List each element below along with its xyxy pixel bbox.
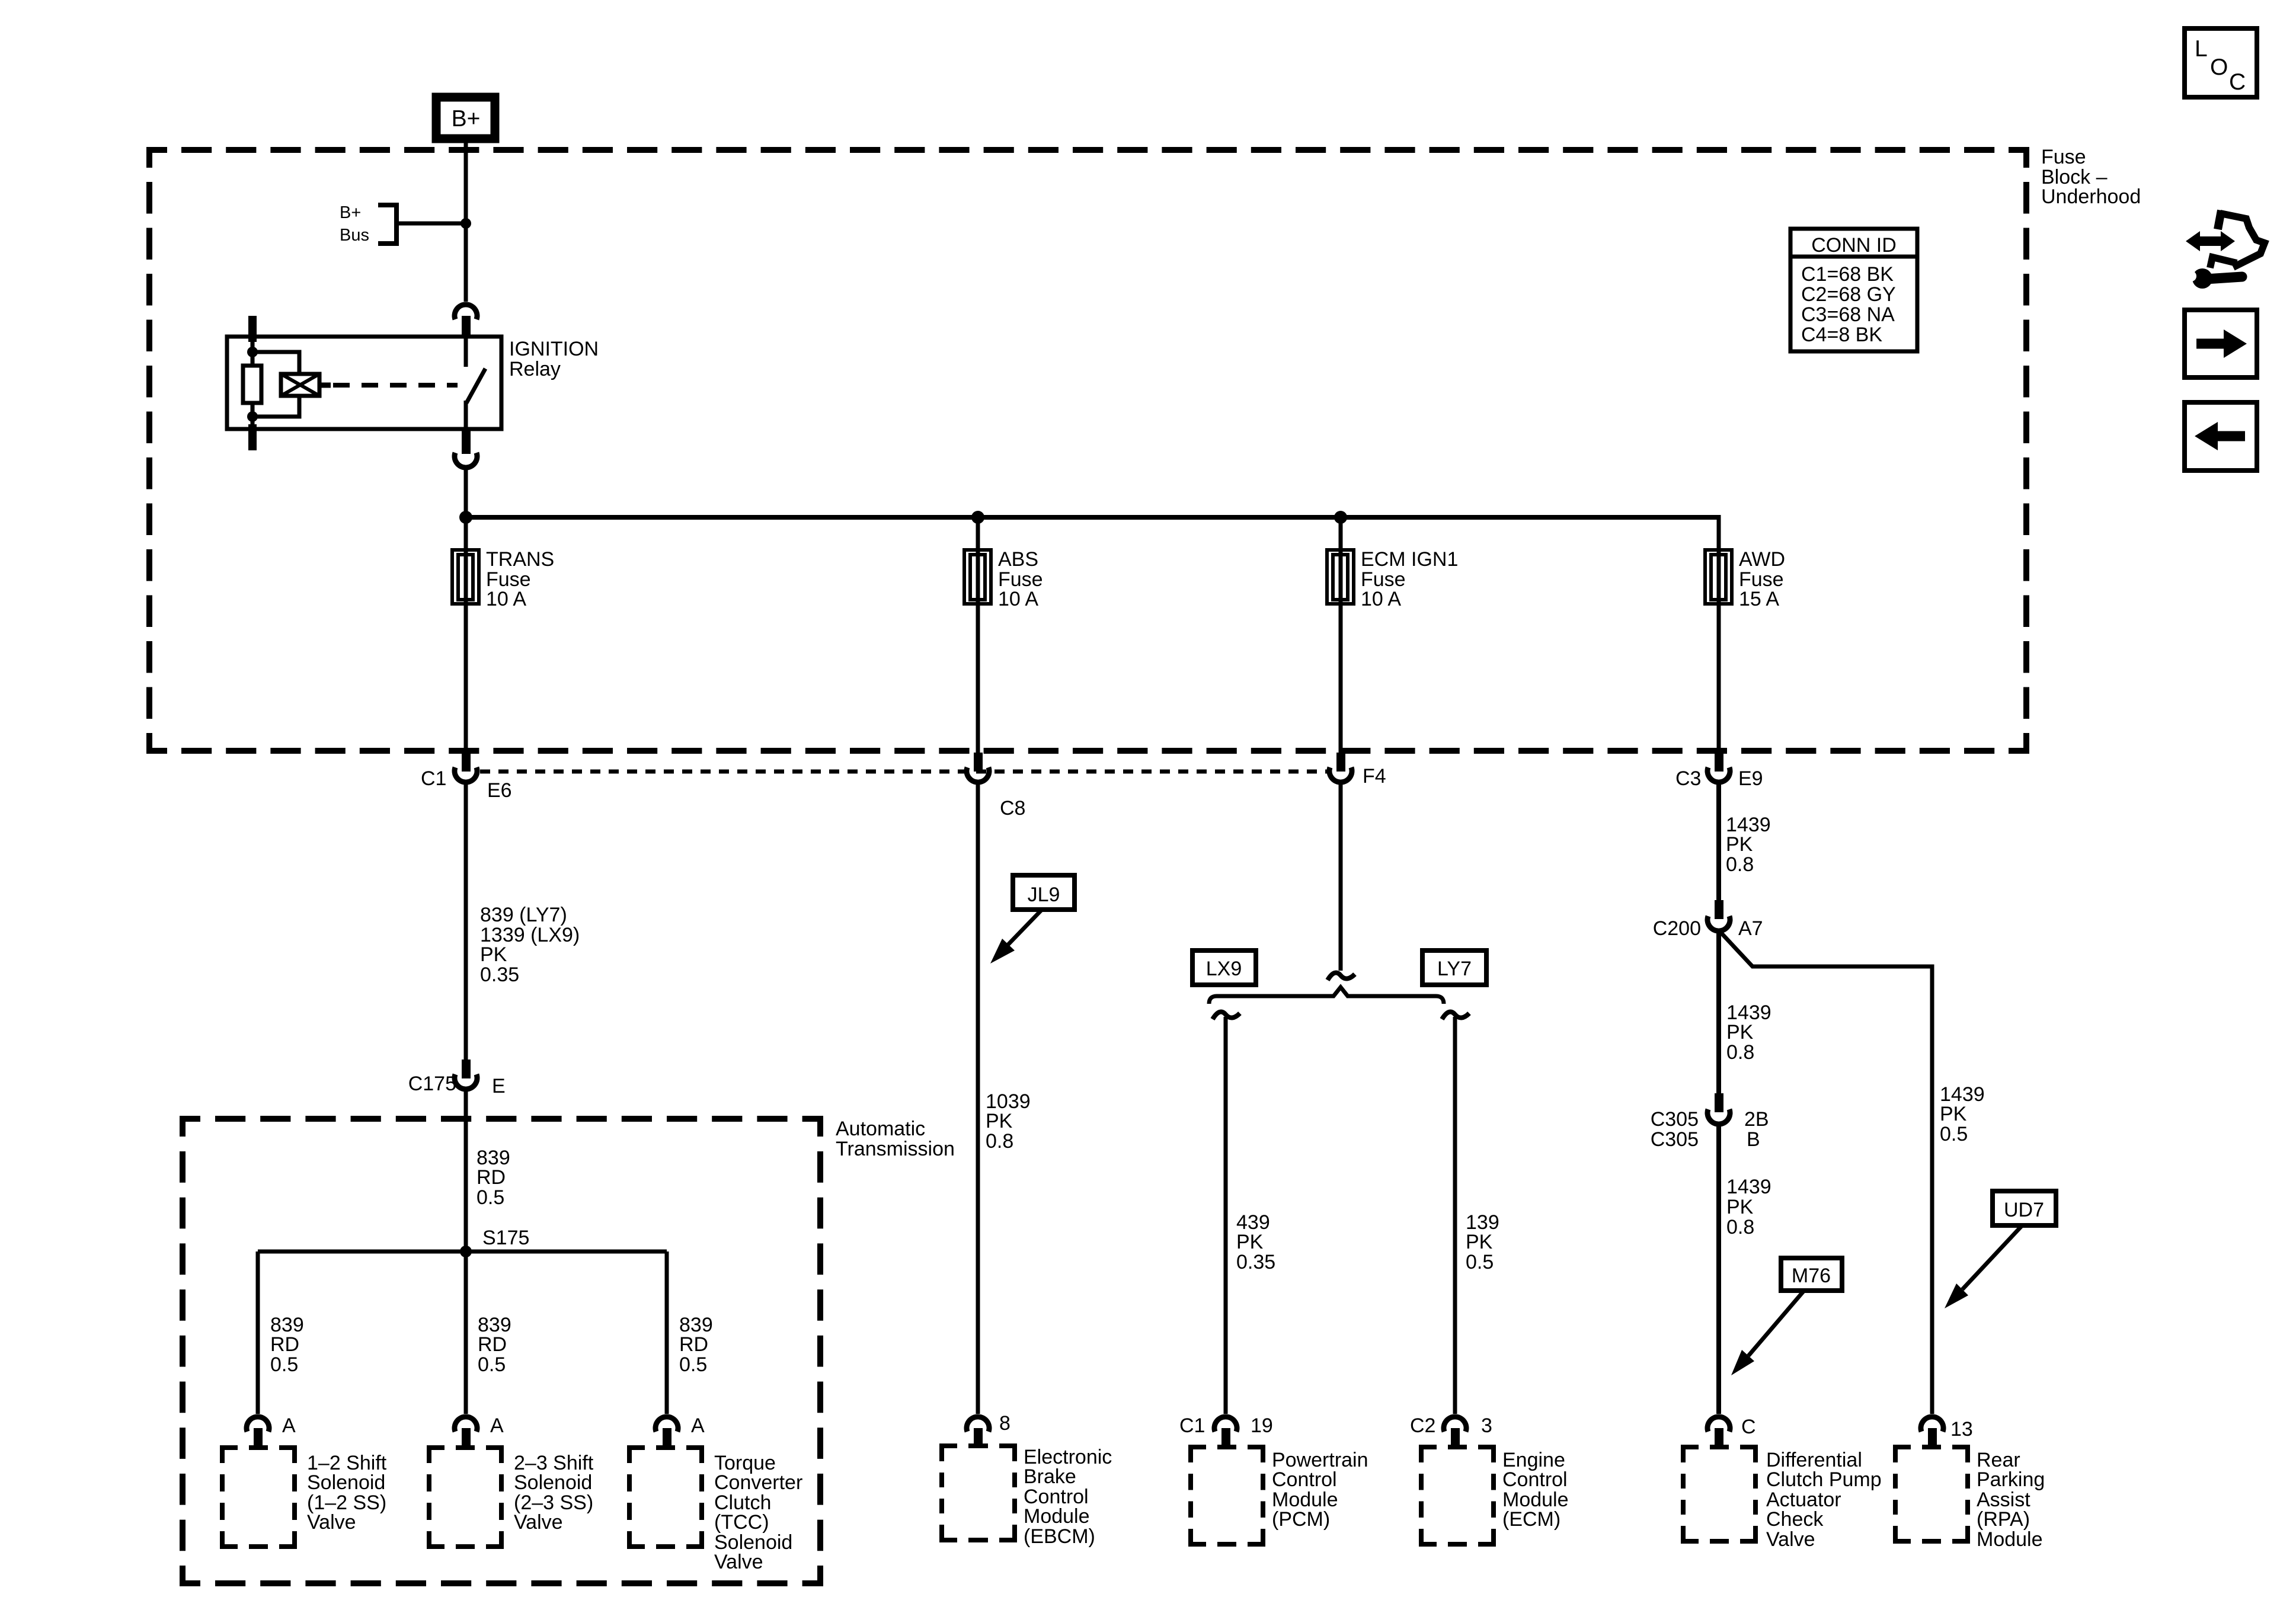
svg-text:0.5: 0.5 bbox=[1466, 1251, 1494, 1273]
M76 leader arrow bbox=[1748, 1291, 1804, 1356]
relay coil wire bbox=[251, 341, 255, 366]
svg-text:C8: C8 bbox=[1000, 797, 1025, 820]
automatic transmission dashed box bbox=[183, 1119, 820, 1583]
svg-text:(TCC): (TCC) bbox=[714, 1511, 769, 1534]
svg-text:E6: E6 bbox=[487, 779, 512, 802]
junction bus/ABS fuse bbox=[971, 511, 984, 524]
svg-text:C2=68 GY: C2=68 GY bbox=[1801, 283, 1896, 306]
svg-text:C305: C305 bbox=[1651, 1128, 1699, 1151]
svg-text:PK: PK bbox=[1726, 833, 1753, 856]
relay switch bbox=[464, 337, 468, 367]
icon back arrow box bbox=[2185, 402, 2257, 470]
svg-text:1439: 1439 bbox=[1726, 1176, 1771, 1198]
connector pin C check valve bbox=[1707, 1417, 1730, 1432]
svg-text:Fuse: Fuse bbox=[2041, 146, 2086, 168]
svg-text:L: L bbox=[2195, 36, 2208, 62]
svg-text:0.8: 0.8 bbox=[1726, 1041, 1754, 1064]
svg-text:Module: Module bbox=[1024, 1505, 1090, 1528]
wire branch to TCC solenoid bbox=[665, 1251, 669, 1414]
svg-text:RD: RD bbox=[679, 1333, 708, 1356]
wire break symbol bbox=[1328, 973, 1355, 981]
svg-text:PK: PK bbox=[1940, 1103, 1967, 1125]
relay pin connector bottom bbox=[462, 429, 471, 454]
ignition relay pin connector top bbox=[455, 305, 477, 319]
svg-text:Module: Module bbox=[1977, 1528, 2043, 1551]
connector C200 pin A7 bbox=[1715, 900, 1723, 919]
svg-text:RD: RD bbox=[478, 1333, 507, 1356]
B+ bus bracket bbox=[378, 205, 396, 244]
svg-text:E: E bbox=[492, 1075, 506, 1097]
wire branch to 2-3 solenoid bbox=[464, 1251, 468, 1414]
icon hood/component view bbox=[2210, 210, 2265, 268]
svg-text:839 (LY7): 839 (LY7) bbox=[480, 904, 567, 926]
icon wrench bbox=[2192, 268, 2212, 289]
wire bus to main bbox=[396, 222, 466, 226]
svg-text:(RPA): (RPA) bbox=[1977, 1508, 2030, 1531]
svg-text:C1: C1 bbox=[421, 767, 446, 790]
svg-text:C1=68 BK: C1=68 BK bbox=[1801, 263, 1894, 286]
svg-text:PK: PK bbox=[1726, 1021, 1754, 1044]
svg-text:8: 8 bbox=[999, 1412, 1011, 1435]
B+ power node bbox=[436, 97, 495, 139]
wire branch to 1-2 solenoid bbox=[256, 1251, 260, 1414]
connector C305 pin 2B/B bbox=[1715, 1093, 1723, 1112]
wire bus to ECM IGN1 fuse bbox=[1339, 517, 1343, 753]
svg-text:B: B bbox=[1747, 1128, 1760, 1151]
svg-text:C200: C200 bbox=[1653, 917, 1701, 940]
svg-text:M76: M76 bbox=[1792, 1265, 1831, 1287]
svg-text:B+: B+ bbox=[340, 203, 361, 222]
junction bus/ECM IGN1 fuse bbox=[1334, 511, 1347, 524]
svg-text:C4=8 BK: C4=8 BK bbox=[1801, 324, 1882, 346]
component 1-2 shift solenoid valve dashed box bbox=[222, 1448, 295, 1547]
wire C3 to C200 bbox=[1716, 783, 1721, 901]
svg-text:0.8: 0.8 bbox=[1726, 1216, 1754, 1238]
svg-text:RD: RD bbox=[270, 1333, 299, 1356]
engine split brace bbox=[1209, 987, 1444, 1004]
connector pin A 1-2 solenoid bbox=[247, 1417, 269, 1432]
junction coil top bbox=[247, 347, 258, 357]
svg-text:(EBCM): (EBCM) bbox=[1024, 1525, 1095, 1548]
option label UD7 bbox=[1993, 1191, 2056, 1225]
connector C3 pin E9 bbox=[1715, 753, 1723, 772]
fuse AWD 15A bbox=[1705, 550, 1732, 604]
conn id table bbox=[1790, 229, 1917, 351]
svg-text:0.8: 0.8 bbox=[986, 1130, 1013, 1153]
connector pin 13 RPA bbox=[1921, 1417, 1943, 1432]
svg-text:0.5: 0.5 bbox=[679, 1353, 707, 1376]
svg-text:2B: 2B bbox=[1744, 1108, 1769, 1131]
fuse block underhood dashed border bbox=[149, 150, 2026, 751]
svg-text:Brake: Brake bbox=[1024, 1465, 1076, 1488]
connector pin A 2-3 solenoid bbox=[455, 1417, 477, 1432]
svg-text:C3: C3 bbox=[1675, 767, 1701, 790]
svg-text:Relay: Relay bbox=[509, 358, 561, 380]
svg-text:IGNITION: IGNITION bbox=[509, 338, 599, 360]
svg-text:ABS: ABS bbox=[998, 548, 1038, 571]
svg-text:TRANS: TRANS bbox=[486, 548, 554, 571]
fuse TRANS 10A bbox=[452, 550, 479, 604]
icon LOC box bbox=[2185, 28, 2257, 97]
relay coil pin stub bottom bbox=[248, 424, 257, 450]
wire B+ to relay bbox=[464, 143, 468, 302]
wire break symbol LX9 branch bbox=[1213, 1012, 1240, 1020]
svg-text:C: C bbox=[2229, 69, 2246, 95]
wire C175 to S175 bbox=[464, 1090, 468, 1251]
svg-text:0.35: 0.35 bbox=[1236, 1251, 1275, 1273]
svg-text:O: O bbox=[2210, 55, 2228, 80]
svg-text:Solenoid: Solenoid bbox=[307, 1471, 385, 1494]
svg-text:Valve: Valve bbox=[307, 1511, 356, 1534]
svg-text:AWD: AWD bbox=[1739, 548, 1785, 571]
connector row dashed line bbox=[480, 770, 1328, 774]
svg-text:C1: C1 bbox=[1179, 1414, 1205, 1437]
svg-text:Control: Control bbox=[1502, 1468, 1568, 1491]
bus wire horizontal bbox=[466, 515, 1719, 520]
svg-text:(PCM): (PCM) bbox=[1272, 1508, 1330, 1531]
svg-text:C305: C305 bbox=[1651, 1108, 1699, 1131]
component ECM dashed box bbox=[1421, 1447, 1494, 1544]
wire bus to TRANS fuse bbox=[464, 517, 468, 753]
svg-text:PK: PK bbox=[1466, 1231, 1493, 1253]
component 2-3 shift solenoid valve dashed box bbox=[429, 1448, 501, 1547]
svg-text:UD7: UD7 bbox=[2004, 1199, 2044, 1221]
fuse ECM IGN1 10A bbox=[1327, 550, 1354, 604]
svg-text:CONN ID: CONN ID bbox=[1811, 234, 1897, 257]
wire C1 to C175 bbox=[464, 783, 468, 1061]
component TCC solenoid valve dashed box bbox=[629, 1448, 702, 1547]
wire C8 to EBCM bbox=[976, 783, 980, 1414]
svg-text:Converter: Converter bbox=[714, 1471, 802, 1494]
connector C2 pin 3 ECM bbox=[1444, 1417, 1466, 1432]
svg-text:A: A bbox=[282, 1414, 296, 1437]
svg-text:19: 19 bbox=[1251, 1414, 1273, 1437]
svg-text:Valve: Valve bbox=[714, 1551, 763, 1573]
svg-text:0.35: 0.35 bbox=[480, 964, 519, 986]
junction coil bottom bbox=[247, 411, 258, 422]
fuse ABS 10A bbox=[964, 550, 991, 604]
svg-text:A: A bbox=[691, 1414, 705, 1437]
svg-text:13: 13 bbox=[1950, 1418, 1973, 1441]
svg-text:Solenoid: Solenoid bbox=[514, 1471, 592, 1494]
svg-text:Valve: Valve bbox=[514, 1511, 563, 1534]
svg-text:ECM IGN1: ECM IGN1 bbox=[1361, 548, 1458, 571]
icon double arrow bbox=[2196, 236, 2224, 246]
svg-text:Valve: Valve bbox=[1766, 1528, 1815, 1551]
connector C8 bbox=[974, 753, 983, 772]
svg-text:C3=68 NA: C3=68 NA bbox=[1801, 303, 1895, 326]
svg-text:LY7: LY7 bbox=[1437, 958, 1472, 980]
svg-text:Bus: Bus bbox=[340, 226, 369, 245]
svg-text:0.8: 0.8 bbox=[1726, 853, 1754, 876]
wire bus to AWD fuse bbox=[1717, 515, 1721, 753]
relay coil pin stub top bbox=[248, 316, 257, 342]
wire break symbol LY7 branch bbox=[1442, 1012, 1469, 1020]
svg-text:C175: C175 bbox=[408, 1073, 456, 1095]
svg-text:C2: C2 bbox=[1410, 1414, 1435, 1437]
connector F4 bbox=[1336, 753, 1345, 772]
svg-text:PK: PK bbox=[1726, 1196, 1754, 1218]
svg-text:Parking: Parking bbox=[1977, 1468, 2045, 1491]
svg-text:F4: F4 bbox=[1363, 765, 1386, 788]
svg-text:0.5: 0.5 bbox=[1940, 1123, 1968, 1145]
relay linkage dashed bbox=[333, 383, 458, 388]
wire bus to ABS fuse bbox=[976, 517, 980, 753]
option label M76 bbox=[1781, 1258, 1842, 1291]
option label LX9 bbox=[1192, 950, 1256, 985]
connector C175 pin E bbox=[462, 1060, 471, 1078]
svg-text:A: A bbox=[490, 1414, 504, 1437]
wire C305 to check valve bbox=[1716, 1124, 1721, 1414]
connector C1 pin 19 PCM bbox=[1214, 1417, 1237, 1432]
connector pin A TCC solenoid bbox=[655, 1417, 678, 1432]
wire C200 to C305 bbox=[1716, 929, 1721, 1093]
option label LY7 bbox=[1422, 950, 1486, 985]
svg-text:PK: PK bbox=[1236, 1231, 1264, 1253]
splice S175 bbox=[460, 1246, 472, 1257]
svg-text:Underhood: Underhood bbox=[2041, 185, 2141, 208]
svg-text:(ECM): (ECM) bbox=[1502, 1508, 1560, 1531]
svg-text:15 A: 15 A bbox=[1739, 588, 1779, 610]
wire LX9 branch to PCM bbox=[1224, 1017, 1228, 1414]
svg-text:Transmission: Transmission bbox=[836, 1138, 955, 1160]
relay K1 IGNITION box bbox=[227, 337, 501, 429]
svg-text:0.5: 0.5 bbox=[477, 1186, 504, 1209]
wire S175 branch horizontal bbox=[258, 1250, 667, 1254]
svg-text:10 A: 10 A bbox=[1361, 588, 1401, 610]
relay solenoid coil symbol bbox=[281, 374, 319, 396]
wire branch to RPA bbox=[1719, 930, 1932, 1414]
connector pin 8 EBCM bbox=[967, 1417, 989, 1432]
svg-text:0.5: 0.5 bbox=[478, 1353, 506, 1376]
relay coil loop wire bbox=[252, 352, 299, 417]
component EBCM dashed box bbox=[942, 1446, 1015, 1540]
wire F4 down bbox=[1339, 783, 1343, 971]
svg-text:10 A: 10 A bbox=[998, 588, 1038, 610]
svg-text:3: 3 bbox=[1481, 1414, 1492, 1437]
junction bus/main bbox=[461, 218, 471, 229]
svg-text:Check: Check bbox=[1766, 1508, 1824, 1531]
svg-text:Automatic: Automatic bbox=[836, 1118, 925, 1140]
svg-text:C: C bbox=[1741, 1416, 1756, 1438]
svg-text:PK: PK bbox=[986, 1110, 1013, 1132]
junction relay/bus bbox=[459, 511, 472, 524]
option label JL9 bbox=[1013, 875, 1075, 910]
svg-text:0.5: 0.5 bbox=[270, 1353, 298, 1376]
svg-text:Clutch Pump: Clutch Pump bbox=[1766, 1468, 1882, 1491]
svg-text:PK: PK bbox=[480, 943, 507, 966]
svg-text:LX9: LX9 bbox=[1206, 958, 1242, 980]
relay coil resistor bbox=[243, 366, 261, 403]
component RPA module dashed box bbox=[1895, 1447, 1968, 1541]
component differential clutch pump actuator check valve dashed box bbox=[1683, 1447, 1755, 1541]
icon forward arrow box bbox=[2185, 310, 2257, 377]
svg-text:A7: A7 bbox=[1738, 917, 1763, 940]
wire LY7 branch to ECM bbox=[1453, 1017, 1457, 1414]
svg-text:S175: S175 bbox=[482, 1227, 529, 1249]
relay coil wire lower bbox=[251, 403, 255, 429]
UD7 leader arrow bbox=[1962, 1225, 2022, 1289]
svg-text:10 A: 10 A bbox=[486, 588, 526, 610]
connector C1 pin E6 bbox=[462, 753, 471, 772]
JL9 leader arrow bbox=[1008, 910, 1042, 945]
component PCM dashed box bbox=[1191, 1447, 1263, 1544]
svg-text:RD: RD bbox=[477, 1166, 506, 1189]
svg-text:JL9: JL9 bbox=[1028, 884, 1060, 906]
wire relay to bus bbox=[464, 468, 468, 517]
svg-text:B+: B+ bbox=[452, 106, 481, 132]
svg-text:Control: Control bbox=[1272, 1468, 1337, 1491]
svg-text:E9: E9 bbox=[1738, 767, 1763, 790]
